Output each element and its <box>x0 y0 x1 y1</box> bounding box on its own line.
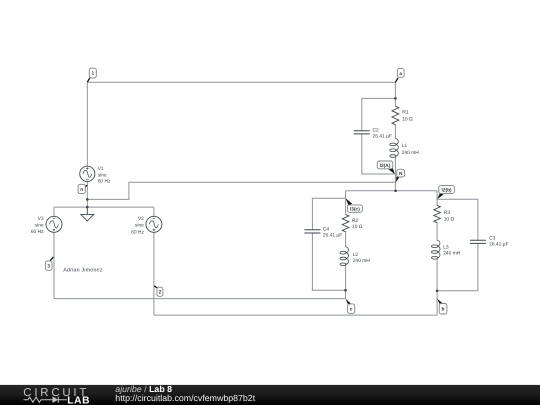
svg-text:240 mH: 240 mH <box>353 258 371 264</box>
wire V1 top lead <box>86 82 88 166</box>
node a <box>395 69 404 83</box>
svg-text:c: c <box>350 308 353 313</box>
svg-text:240 mH: 240 mH <box>402 150 420 156</box>
wire L1 to node N <box>394 156 396 191</box>
svg-text:240 mH: 240 mH <box>443 250 461 256</box>
wire top bus <box>87 81 395 83</box>
svg-text:L3: L3 <box>443 245 449 251</box>
junction C4 bottom <box>344 289 347 292</box>
svg-text:60 Hz: 60 Hz <box>131 229 144 235</box>
voltage source V1 <box>80 166 95 181</box>
svg-text:Adrian Jimenez: Adrian Jimenez <box>63 267 102 273</box>
svg-text:10 Ω: 10 Ω <box>444 216 455 222</box>
wire jog below V2 <box>153 299 155 316</box>
svg-text:L2: L2 <box>353 252 359 258</box>
node I3(c) <box>346 198 363 212</box>
wire V3 bottom lead <box>53 232 55 298</box>
svg-text:V3: V3 <box>38 216 44 222</box>
wire V1 bottom lead <box>86 181 88 207</box>
svg-text:1: 1 <box>91 71 94 77</box>
wire node b riser <box>436 299 438 315</box>
junction N bus <box>394 190 397 193</box>
svg-text:N: N <box>399 171 403 177</box>
wire n-junction to node N <box>87 182 395 199</box>
node 3 <box>45 257 53 270</box>
node n <box>78 184 87 193</box>
node N <box>396 169 405 182</box>
inductor L3 <box>432 240 441 259</box>
svg-text:C4: C4 <box>323 226 330 232</box>
svg-text:sine: sine <box>35 222 44 228</box>
svg-text:R1: R1 <box>402 110 409 116</box>
svg-text:C3: C3 <box>489 235 496 241</box>
wire bottom bus to node b <box>154 314 437 316</box>
wire V3 top lead <box>53 207 55 216</box>
inductor L2 <box>340 247 349 266</box>
junction ground bus <box>86 206 89 209</box>
junction V1-n bus <box>86 198 89 201</box>
wire V3-V2 bus <box>54 206 154 208</box>
wire V2 top lead <box>153 207 155 216</box>
wire C3 branch <box>437 199 478 291</box>
svg-text:60 Hz: 60 Hz <box>31 229 44 235</box>
capacitor C2 <box>354 131 370 134</box>
wire C2 branch <box>362 98 396 174</box>
wire C4 branch <box>312 198 345 290</box>
node 2 <box>154 286 163 296</box>
node 1 <box>87 68 96 82</box>
svg-text:26.41 µF: 26.41 µF <box>373 133 392 139</box>
svg-text:26.41 µF: 26.41 µF <box>323 233 342 239</box>
wire V2 bottom lead <box>153 232 155 298</box>
svg-text:LAB: LAB <box>67 396 90 405</box>
svg-text:I3(c): I3(c) <box>350 207 360 213</box>
svg-text:V2: V2 <box>138 216 144 222</box>
svg-text:2: 2 <box>159 290 162 296</box>
capacitor C3 <box>470 240 486 243</box>
wire R1-L1 lead <box>394 125 396 139</box>
svg-text:L1: L1 <box>402 143 408 149</box>
svg-text:a: a <box>399 72 402 77</box>
svg-text:10 Ω: 10 Ω <box>402 116 413 122</box>
svg-text:10 Ω: 10 Ω <box>352 224 363 230</box>
svg-text:I2(A): I2(A) <box>380 163 391 169</box>
svg-text:sine: sine <box>98 172 107 178</box>
junction C2 top <box>394 97 397 100</box>
wire R2 branch leads <box>345 198 347 298</box>
capacitor C4 <box>304 230 320 233</box>
node I2(b) <box>437 186 454 200</box>
svg-text:V1: V1 <box>98 166 104 172</box>
node c <box>346 299 355 314</box>
svg-text:26.41 µF: 26.41 µF <box>489 242 508 248</box>
junction C3 bottom <box>436 290 439 293</box>
resistor R1 <box>392 106 399 125</box>
wire R3-L3 leads <box>436 222 438 299</box>
logo resistor-diode line <box>24 397 67 403</box>
svg-text:R3: R3 <box>444 210 451 216</box>
svg-text:C2: C2 <box>373 128 380 134</box>
svg-text:http://circuitlab.com/cvfemwbp: http://circuitlab.com/cvfemwbp87b2t <box>115 393 255 403</box>
node I2(A) <box>377 161 395 174</box>
resistor R2 <box>342 215 349 232</box>
voltage source V2 <box>146 216 162 232</box>
svg-text:b: b <box>442 307 445 313</box>
wire N bus <box>346 190 438 192</box>
svg-text:I2(b): I2(b) <box>442 188 453 194</box>
svg-text:n: n <box>80 188 83 193</box>
voltage source V3 <box>46 216 62 232</box>
svg-text:R2: R2 <box>352 218 359 224</box>
resistor R3 <box>434 205 441 222</box>
inductor L1 <box>390 139 399 158</box>
ground <box>81 207 94 221</box>
svg-text:sine: sine <box>135 223 144 229</box>
wire R1 branch top lead <box>394 82 396 106</box>
node b <box>437 299 447 314</box>
svg-text:60 Hz: 60 Hz <box>98 179 111 185</box>
wire bottom bus to node c <box>54 298 346 300</box>
svg-text:3: 3 <box>47 264 50 270</box>
wire left corner drop <box>345 191 347 198</box>
wire right corner drop <box>436 191 438 206</box>
